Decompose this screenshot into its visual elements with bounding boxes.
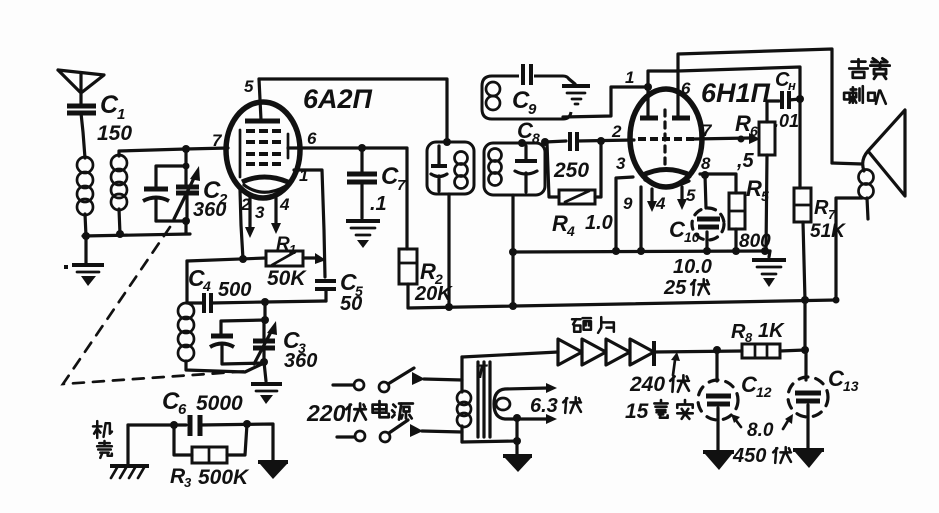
svg-text:4: 4 <box>279 195 290 214</box>
svg-text:5: 5 <box>244 77 254 96</box>
node L2 bottom <box>116 230 124 238</box>
node long rail T2 <box>509 302 517 310</box>
svg-text:н: н <box>788 78 796 93</box>
svg-text:8: 8 <box>532 130 540 146</box>
ground right of R3 <box>258 462 288 479</box>
ground below input coils <box>64 238 104 286</box>
wire pin3 down to small rail <box>616 177 633 250</box>
svg-text:8.0: 8.0 <box>747 420 774 441</box>
label 450V <box>732 445 791 467</box>
ground center tap <box>503 456 532 472</box>
svg-text:5: 5 <box>686 186 696 205</box>
svg-text:R: R <box>814 197 829 219</box>
label R6 <box>735 111 758 139</box>
inductor L2 secondary coil <box>111 155 127 210</box>
svg-text:360: 360 <box>284 350 317 372</box>
wire B+ vertical <box>803 300 806 350</box>
wire pin6 to C7 and R2 <box>288 148 407 249</box>
node rail T1 <box>445 303 453 311</box>
wire L2 bottom <box>119 209 120 234</box>
U2 filament arrow pin5 <box>677 187 687 210</box>
oscillator coil L3 <box>178 303 264 372</box>
U1 cathode arc <box>242 177 288 182</box>
label R8 <box>731 321 753 345</box>
transformer top wire to rectifier <box>462 352 558 357</box>
resistor R2 <box>399 249 417 284</box>
ground below C7 <box>346 221 380 248</box>
svg-text:450: 450 <box>732 445 766 467</box>
selenium rectifier diodes <box>558 339 654 366</box>
speaker horn <box>863 110 905 196</box>
svg-text:6: 6 <box>681 79 691 98</box>
arrow of C3 <box>254 321 277 364</box>
transformer core <box>478 362 490 437</box>
svg-text:20K: 20K <box>414 283 453 305</box>
capacitor C8 <box>545 132 634 151</box>
label C9 <box>512 87 537 118</box>
capacitor C7 <box>347 144 377 218</box>
U2 pin1 stem <box>648 71 678 118</box>
transformer bottom wire <box>462 441 517 442</box>
label C13 <box>828 366 859 394</box>
svg-text:9: 9 <box>623 194 633 213</box>
label C12 <box>741 372 772 400</box>
svg-text:6: 6 <box>178 401 187 418</box>
ground below C3 <box>251 362 282 404</box>
variable capacitor C3 <box>253 320 275 362</box>
label xi-pian (selenium) <box>572 317 614 333</box>
svg-text:5000: 5000 <box>196 392 243 415</box>
T1 internal capacitor <box>431 146 447 191</box>
label 150 <box>97 122 132 145</box>
svg-text:8: 8 <box>745 330 753 345</box>
label C10 <box>669 217 700 245</box>
wire C2 top branch <box>156 149 186 188</box>
wire node down from C4 rail <box>263 302 266 320</box>
electrolytic C13 <box>788 350 828 448</box>
svg-text:250: 250 <box>553 159 589 182</box>
node pin7 wire <box>182 145 190 153</box>
U1 pin2 wire <box>240 190 243 259</box>
capacitor C1 <box>67 106 96 158</box>
U2 cathode arc <box>641 170 692 177</box>
node C12 <box>713 346 721 354</box>
resistor R7 <box>794 99 811 300</box>
resistor R6 <box>759 101 775 251</box>
svg-text:25: 25 <box>663 277 687 299</box>
U2 pin6 stem and rails <box>678 49 832 163</box>
heater winding 6.3V <box>494 383 557 424</box>
label R4 <box>552 211 575 239</box>
wire L1 bottom <box>85 214 86 236</box>
capacitor C4 <box>187 261 326 313</box>
switch pole lower <box>337 420 462 442</box>
resistor R1 <box>266 251 303 266</box>
chassis ground symbol <box>110 466 149 478</box>
svg-text:51K: 51K <box>810 221 846 242</box>
wire pin8 node <box>700 171 736 193</box>
variable capacitor C2 <box>176 187 199 221</box>
arrow of C2 <box>174 166 200 219</box>
svg-text:1: 1 <box>117 106 125 123</box>
node T2 top <box>518 139 526 147</box>
label C4 <box>188 265 211 294</box>
wire pin9 down <box>639 187 642 250</box>
resistor R3 parallel <box>174 424 247 463</box>
svg-text:360: 360 <box>193 199 226 221</box>
label C7 <box>381 163 406 194</box>
U2 grid dashes <box>638 137 694 141</box>
antenna <box>58 70 104 104</box>
svg-text:500: 500 <box>218 279 251 301</box>
switch pole upper <box>333 368 462 392</box>
measurement arrow 240V <box>671 352 680 375</box>
label 220V power <box>306 400 413 426</box>
svg-text:1.0: 1.0 <box>585 212 613 234</box>
node L1 bottom <box>82 232 90 240</box>
U1 grid dashes <box>246 131 281 164</box>
node C6 left <box>170 421 178 429</box>
svg-text:15: 15 <box>625 400 649 423</box>
svg-text:13: 13 <box>843 378 859 394</box>
wire pin5 top rail to IF1 <box>259 79 447 142</box>
U1 grid side rails <box>240 130 288 177</box>
ground at small rail end <box>752 251 786 287</box>
leader arrow to C13 <box>783 414 793 429</box>
label C2 <box>203 177 228 208</box>
svg-text:,5: ,5 <box>736 150 755 172</box>
svg-text:50: 50 <box>340 293 362 315</box>
svg-text:R: R <box>735 111 751 136</box>
svg-text:6.3: 6.3 <box>530 395 558 417</box>
ground below C13 <box>793 450 824 468</box>
resistor R5 <box>729 193 745 251</box>
node T1 top <box>443 138 451 146</box>
U1 bottom lens arc <box>244 185 286 192</box>
svg-text:7: 7 <box>397 177 406 194</box>
node C8 right <box>597 137 605 145</box>
wire R2 bottom to long rail <box>408 284 836 308</box>
IF transformer T1 box <box>427 142 474 194</box>
node C10 rail <box>703 247 711 255</box>
node rail end corner <box>833 297 840 304</box>
label C5 <box>340 269 363 299</box>
power transformer T primary <box>457 357 471 442</box>
svg-text:R: R <box>276 234 290 255</box>
node R5 rail <box>732 247 740 255</box>
electrolytic C10 <box>692 175 724 251</box>
svg-text:6Н1П: 6Н1П <box>701 78 771 108</box>
label 6.3V <box>530 395 581 417</box>
label R5 <box>746 176 769 204</box>
wire bottom common <box>83 221 190 236</box>
chassis wire <box>126 425 129 465</box>
dashed gang coupling line <box>63 227 250 384</box>
svg-text:3: 3 <box>616 154 626 173</box>
IF transformer T2 box <box>484 143 545 195</box>
small ground rail <box>513 251 770 252</box>
resistor R4 <box>547 141 601 204</box>
node pin2-R1 <box>239 255 247 263</box>
T1 internal coil <box>455 152 468 189</box>
C9 coil loops <box>486 82 500 110</box>
label R7 <box>814 197 836 222</box>
node C2 bottom <box>182 217 190 225</box>
node small rail left <box>509 248 517 256</box>
U2 filament arrow pin4 <box>647 189 657 212</box>
node R6 rail <box>761 247 769 255</box>
wire pin1 down to C5 <box>294 170 325 277</box>
wire rectifier output <box>654 351 742 352</box>
node osc top <box>261 316 269 324</box>
tube U1 6A2P envelope <box>226 102 300 198</box>
resistor R8 <box>742 344 805 358</box>
svg-text:4: 4 <box>655 194 666 213</box>
wire R1 left <box>187 258 266 261</box>
capacitor Cn <box>767 91 804 109</box>
node C3 bottom <box>260 358 268 366</box>
label C6 <box>162 388 187 418</box>
ground top of C9 loop <box>562 79 590 104</box>
svg-text:9: 9 <box>528 101 537 118</box>
wire R1 right with arrow <box>303 253 326 264</box>
inductor L1 antenna coil <box>77 157 93 215</box>
svg-text:8: 8 <box>701 154 711 173</box>
svg-text:1: 1 <box>289 242 296 257</box>
label ji-ke (chassis) <box>93 421 112 458</box>
svg-text:3: 3 <box>255 203 265 222</box>
U2 anode bars <box>640 116 690 121</box>
wire C9 loop to pin1 of U2 <box>563 87 648 117</box>
wire pin7 to R6 wiper arrow <box>694 133 760 144</box>
label R1 <box>276 234 296 257</box>
wire L2 top to grid pin7 <box>119 148 228 156</box>
svg-text:4: 4 <box>202 278 211 294</box>
label 25V <box>663 277 709 299</box>
antenna trimmer capacitor <box>143 189 169 221</box>
svg-text:R: R <box>746 176 762 201</box>
svg-text:.01: .01 <box>774 111 799 131</box>
label C1 <box>100 91 125 123</box>
wire trimmer-C2 bottom bracket <box>156 219 186 222</box>
label 240V <box>629 373 689 396</box>
svg-text:3: 3 <box>184 475 192 490</box>
speaker top wire <box>832 163 862 164</box>
svg-text:240: 240 <box>629 373 665 396</box>
oscillator tank loop C9 <box>482 64 571 119</box>
svg-text:6: 6 <box>750 123 758 139</box>
capacitor C5 <box>315 281 336 301</box>
wire T1 bottom to rail <box>447 194 450 307</box>
T2 internal coil <box>489 149 502 186</box>
svg-text:R: R <box>420 259 436 284</box>
label C3 <box>283 327 306 356</box>
svg-text:R: R <box>552 211 568 236</box>
node pin9 rail <box>637 247 645 255</box>
svg-text:12: 12 <box>756 384 772 400</box>
label 15mA <box>625 400 693 423</box>
node C6 right <box>243 420 251 428</box>
label la-ba <box>844 86 886 104</box>
svg-text:1: 1 <box>625 68 634 87</box>
node long rail right <box>801 296 809 304</box>
label R3 <box>170 465 192 490</box>
ground below C12 <box>703 452 734 470</box>
leader arrow to C12 <box>731 414 741 427</box>
svg-text:10: 10 <box>684 229 700 245</box>
capacitor C6 <box>128 415 273 461</box>
label C8 <box>517 118 540 146</box>
svg-text:50K: 50K <box>267 267 307 290</box>
tube U2 6N1P envelope <box>630 89 702 187</box>
svg-text:7: 7 <box>212 131 223 150</box>
svg-text:4: 4 <box>566 223 575 239</box>
U2 bottom lens arc <box>645 180 689 186</box>
speaker bottom wire <box>836 198 862 300</box>
label R2 <box>420 259 443 287</box>
U1 anode bar pin5 <box>245 79 280 121</box>
node R8 right <box>801 346 809 354</box>
U1 filament arrow pin4 <box>271 198 281 234</box>
svg-text:.1: .1 <box>370 193 387 215</box>
svg-text:6: 6 <box>307 129 317 148</box>
T2 internal capacitor <box>515 146 537 192</box>
speaker driver coil <box>859 170 874 220</box>
svg-text:6А2П: 6А2П <box>303 84 373 114</box>
node C4-C5 bottom <box>261 298 269 306</box>
node pin1 U2 <box>644 83 652 91</box>
electrolytic C12 <box>698 350 738 450</box>
svg-text:220: 220 <box>306 400 346 426</box>
node trimmer branch <box>183 163 190 170</box>
svg-text:2: 2 <box>611 122 622 141</box>
svg-text:150: 150 <box>97 122 132 145</box>
svg-text:R: R <box>731 321 746 343</box>
svg-text:1K: 1K <box>758 320 785 342</box>
osc trimmer capacitor <box>210 320 265 364</box>
node T2 corner <box>541 138 549 146</box>
wire T2 bottom to rails <box>511 195 514 306</box>
node pin3 rail <box>612 247 620 255</box>
svg-text:10.0: 10.0 <box>673 256 712 278</box>
U2 divider dashes <box>663 110 666 168</box>
U1 filament arrow pin3 <box>245 196 255 238</box>
label she-huang <box>849 58 889 78</box>
label Cn <box>775 69 796 93</box>
svg-text:500K: 500K <box>198 466 250 489</box>
heater center tap <box>513 414 521 455</box>
